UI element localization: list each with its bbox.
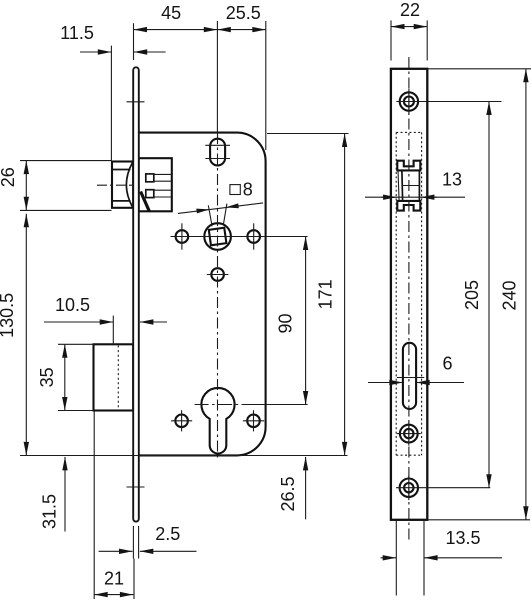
hole below follower	[211, 268, 224, 281]
svg-text:13: 13	[442, 169, 462, 189]
plate centre line	[408, 57, 410, 541]
bottom screw hole	[400, 479, 418, 497]
vertical centre line	[216, 21, 218, 133]
dimension 205	[488, 102, 490, 488]
follower circle	[204, 223, 231, 250]
dimension 6	[368, 382, 403, 384]
follower square 8mm	[209, 228, 227, 246]
svg-text:171: 171	[316, 279, 336, 309]
square symbol and 8	[230, 185, 240, 195]
middle hole	[400, 425, 418, 443]
dimension 26	[25, 161, 27, 211]
dimension 240	[525, 69, 527, 520]
latch spring diagonal	[141, 192, 150, 212]
svg-text:205: 205	[462, 280, 482, 310]
follower centre line	[171, 236, 308, 238]
svg-text:26.5: 26.5	[278, 476, 298, 511]
dimension 31.5	[64, 457, 66, 532]
long bottom extension line	[20, 455, 348, 457]
latch tail (inside lock)	[139, 158, 172, 211]
latch head (outside faceplate)	[112, 162, 133, 208]
cylinder centre line	[195, 404, 244, 406]
dimension 22	[391, 26, 427, 28]
latch head step lines	[112, 169, 131, 171]
dotted lock case	[396, 132, 421, 455]
extension line faceplate top	[133, 23, 135, 60]
svg-text:35: 35	[37, 367, 57, 387]
deadbolt slot	[403, 343, 416, 409]
svg-text:6: 6	[442, 353, 452, 373]
svg-text:26: 26	[0, 167, 18, 187]
dimension 25.5	[217, 29, 265, 31]
svg-text:22: 22	[400, 0, 420, 20]
latch tail tab 2	[146, 190, 154, 198]
cylinder flank hole right	[247, 415, 260, 428]
top screw hole	[400, 92, 418, 110]
dimension 13	[365, 196, 465, 198]
svg-text:21: 21	[104, 569, 124, 589]
dimension 45	[134, 29, 218, 31]
cylinder flank hole left	[175, 415, 188, 428]
extension line body right	[265, 21, 267, 150]
oval hole ticks	[205, 144, 230, 146]
euro cylinder profile	[201, 388, 234, 454]
svg-text:8: 8	[243, 179, 253, 199]
latch centre line	[97, 184, 138, 186]
latch tail bars	[154, 173, 172, 175]
svg-text:240: 240	[499, 280, 519, 310]
extension bottom right	[427, 519, 530, 521]
svg-text:10.5: 10.5	[55, 295, 90, 315]
svg-text:11.5: 11.5	[60, 23, 94, 43]
lock body outline	[139, 133, 266, 456]
extension top right	[427, 68, 531, 70]
svg-text:2.5: 2.5	[155, 524, 180, 544]
extension latch face	[110, 46, 112, 161]
svg-text:13.5: 13.5	[445, 528, 480, 548]
faceplate	[133, 67, 139, 521]
deadbolt	[94, 344, 134, 410]
dimension 130.5	[25, 214, 27, 456]
faceplate plate	[391, 69, 427, 520]
svg-text:45: 45	[161, 3, 181, 23]
svg-text:25.5: 25.5	[226, 3, 261, 23]
svg-text:90: 90	[276, 313, 296, 333]
oval hole top	[210, 139, 225, 166]
follower flank hole left	[176, 230, 189, 243]
dimension 21	[93, 412, 95, 600]
dimension square 8 leader	[208, 205, 212, 226]
dimension 90	[305, 237, 307, 405]
dimension 35	[64, 344, 66, 410]
svg-text:31.5: 31.5	[39, 494, 59, 529]
faceplate screw tick top	[127, 101, 145, 103]
deadbolt dotted line	[117, 346, 119, 410]
faceplate screw tick bottom	[127, 486, 145, 488]
latch tail tab 1	[146, 174, 154, 182]
dimension 13.5	[395, 520, 397, 596]
svg-text:130.5: 130.5	[0, 293, 17, 338]
dimension 171	[344, 134, 346, 456]
follower flank hole right	[247, 230, 260, 243]
latch bevel arc	[126, 162, 132, 207]
latch front view	[398, 161, 420, 210]
dimension 26.5	[305, 457, 307, 519]
